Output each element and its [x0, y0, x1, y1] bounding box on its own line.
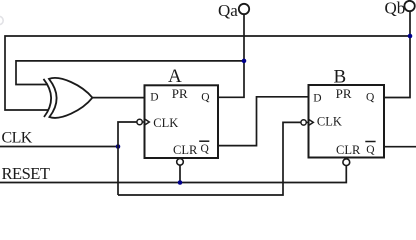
wire: Qbar of B output stub	[384, 146, 416, 148]
svg-text:Qa: Qa	[218, 1, 238, 20]
flip-flop B clock wedge	[309, 119, 314, 125]
flip-flop A CLR bubble	[177, 159, 184, 166]
wire: inner feedback rail (Qa net) y=60	[16, 61, 244, 85]
svg-text:B: B	[334, 67, 347, 88]
svg-text:Q: Q	[366, 144, 375, 156]
XOR gate U1 body	[49, 78, 92, 118]
svg-text:CLK: CLK	[153, 116, 178, 130]
svg-text:Q: Q	[366, 92, 375, 104]
Qb terminal circle	[404, 1, 414, 11]
wire: Q of B up to Qb terminal	[384, 11, 410, 97]
wire: CLR of A drop	[179, 165, 181, 182]
junction dot RESET/CLR A	[178, 180, 183, 185]
svg-text:Q: Q	[201, 143, 210, 155]
svg-text:A: A	[168, 66, 182, 87]
junction dot Qa/feedback	[242, 59, 247, 64]
wire: CLK to clock of A	[118, 122, 137, 195]
svg-text:D: D	[150, 92, 158, 104]
wire: CLK rail	[0, 146, 118, 148]
svg-text:CLK: CLK	[317, 115, 342, 129]
wire: RESET rail to CLR of B	[0, 165, 346, 182]
wire: bottom clock rail to B	[118, 122, 301, 195]
wire: XOR output to D of A	[92, 97, 145, 99]
clipped stray terminal circle at left edge	[0, 16, 3, 24]
Qa terminal circle	[239, 4, 249, 14]
svg-text:CLR: CLR	[336, 143, 361, 157]
flip-flop B CLR bubble	[343, 159, 350, 166]
flip-flop B box	[309, 85, 385, 158]
junction dot CLK	[116, 144, 121, 149]
svg-text:PR: PR	[336, 86, 352, 101]
wire: top feedback rail (Qb net) y=36	[5, 36, 410, 110]
wire: Q of A up to Qa terminal	[218, 14, 244, 97]
XOR gate U1 input-side arc	[44, 79, 52, 117]
svg-text:D: D	[313, 93, 321, 105]
flip-flop A clock wedge	[145, 119, 150, 125]
flip-flop A clock bubble	[137, 119, 142, 124]
junction dot Qb/feedback	[408, 34, 413, 39]
flip-flop B clock bubble	[301, 120, 306, 125]
svg-text:Qb: Qb	[385, 0, 406, 17]
svg-text:CLR: CLR	[173, 143, 198, 157]
svg-text:Q: Q	[201, 91, 210, 103]
wire: Qbar of A to D of B	[218, 97, 309, 146]
svg-text:PR: PR	[172, 86, 188, 101]
flip-flop A box	[145, 85, 219, 158]
svg-text:RESET: RESET	[2, 164, 50, 183]
svg-text:CLK: CLK	[2, 130, 33, 147]
